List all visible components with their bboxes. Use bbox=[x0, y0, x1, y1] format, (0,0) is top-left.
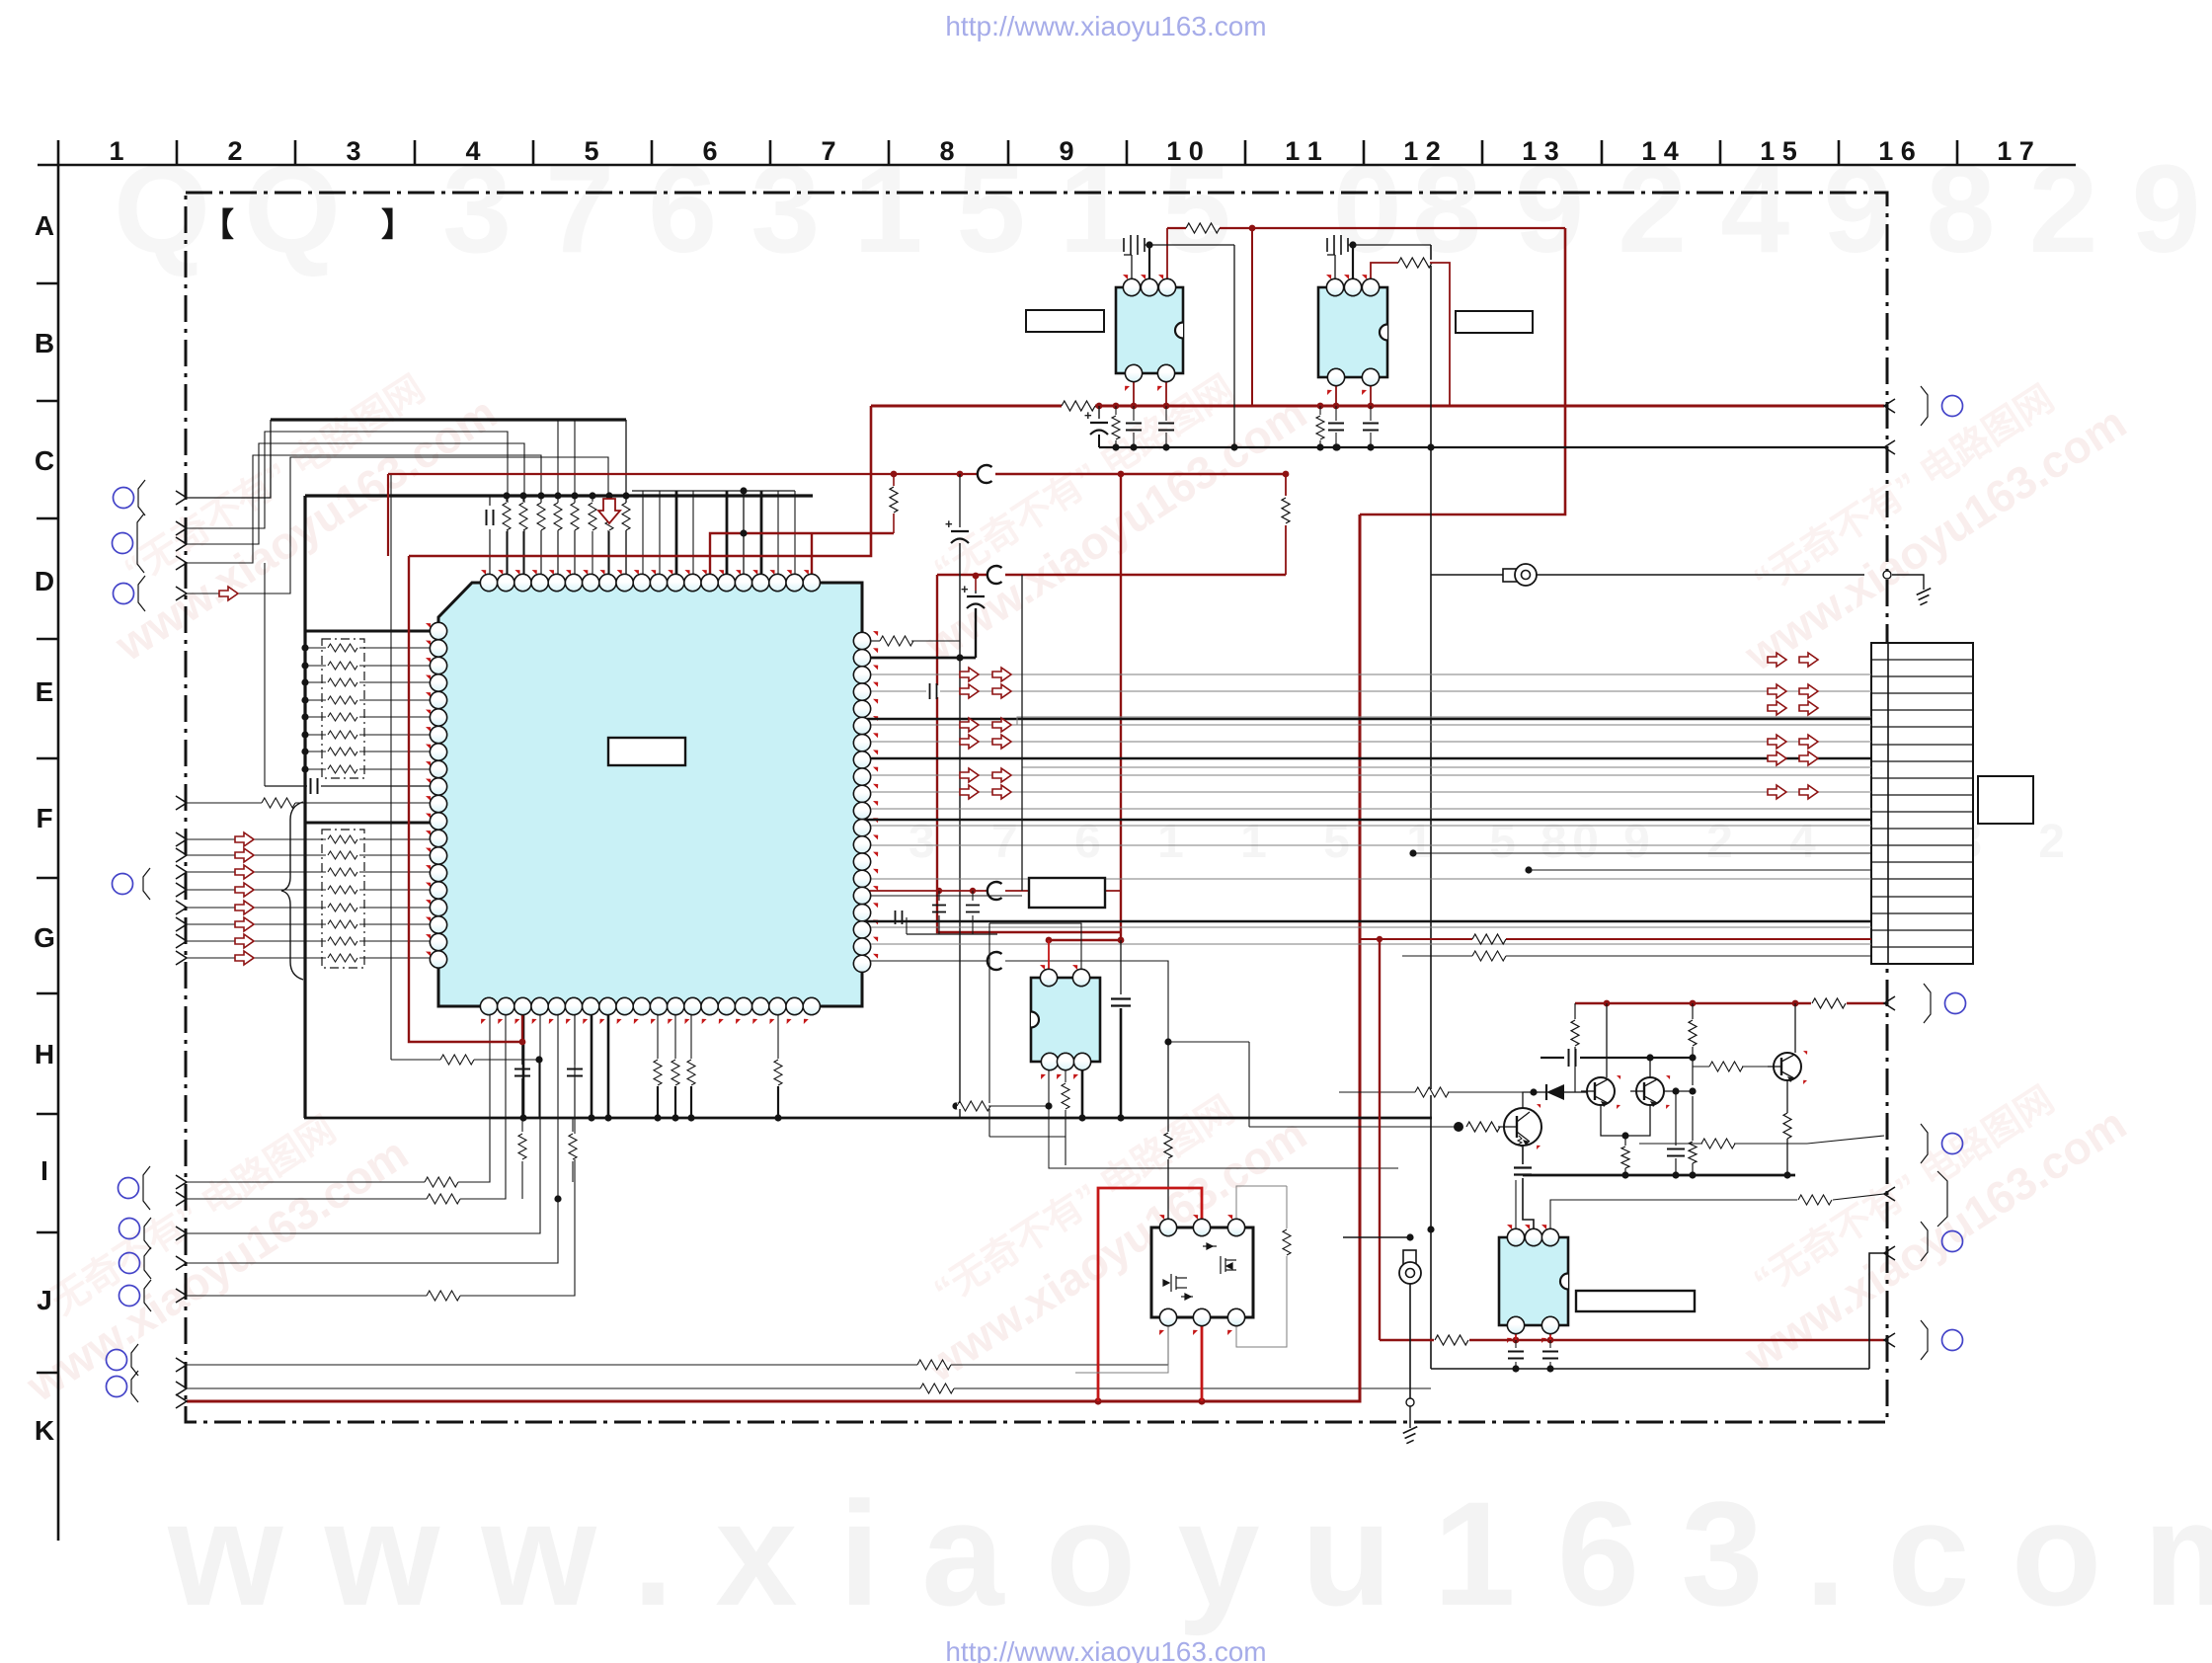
wire red xtal feed y231 bbox=[1167, 227, 1565, 229]
black row under red bbox=[1402, 955, 1871, 957]
wire Q4 base dot link bbox=[1339, 1091, 1416, 1093]
wire x1250 drop bbox=[1233, 245, 1235, 447]
resistor under U2 pin2 bbox=[1065, 1062, 1066, 1082]
svg-text:2: 2 bbox=[227, 136, 242, 166]
resistor R_i2 vertical bbox=[572, 1118, 574, 1132]
X1 crystal wiring bbox=[1131, 255, 1133, 287]
wire input J3 bbox=[187, 1007, 575, 1296]
wire input D3 to pin bbox=[187, 443, 524, 583]
signal arrows near IC bbox=[960, 668, 979, 681]
right terminal y1209 bbox=[1884, 1187, 1895, 1201]
wire red to bottom pins bbox=[409, 556, 522, 1042]
open junction at border bottom bbox=[1406, 1398, 1414, 1406]
wire RN1 row bbox=[305, 665, 326, 667]
label box for IC X1 bbox=[1026, 310, 1104, 332]
wire red bus y582 bbox=[937, 574, 987, 577]
label box for IC U3 bbox=[1576, 1291, 1695, 1311]
svg-text:4: 4 bbox=[465, 136, 480, 166]
svg-text:1 1: 1 1 bbox=[1285, 136, 1322, 166]
wire base feed into Q1 bbox=[1575, 1091, 1587, 1093]
left terminals group I/J bbox=[176, 1175, 187, 1189]
watermark pink diagonal lower-left bbox=[0, 1083, 417, 1412]
wire input I2 bbox=[187, 1007, 506, 1199]
wire row jog 2 bbox=[862, 767, 1871, 775]
wire input G row bbox=[187, 940, 326, 942]
crystal Y1 bbox=[1124, 235, 1145, 255]
ruler left ticks bbox=[37, 283, 58, 1373]
wire horizontal bus y502 bbox=[305, 494, 813, 497]
svg-text:1: 1 bbox=[109, 136, 123, 166]
wire vertical trunk x309 bbox=[303, 496, 306, 1118]
signal arrow G row bbox=[235, 934, 254, 948]
IC X2 oscillator chip right bbox=[1318, 275, 1387, 395]
left terminal F bbox=[176, 796, 187, 810]
FET array package Q5 bbox=[1151, 1215, 1253, 1335]
electrolytic cap C_e1 bbox=[1096, 403, 1103, 410]
wire x1397 red riser bbox=[1379, 939, 1381, 1340]
label box for IC X2 bbox=[1456, 311, 1533, 333]
wire red pin14-20 link bbox=[710, 533, 894, 583]
svg-text:K: K bbox=[35, 1415, 54, 1446]
connector CN1 right edge bbox=[1871, 643, 1973, 964]
brace for G group bbox=[281, 802, 303, 980]
svg-text:1 4: 1 4 bbox=[1641, 136, 1679, 166]
diode D1 bbox=[1545, 1084, 1547, 1100]
wire drop to cap bbox=[264, 563, 266, 786]
series capacitor C_b bbox=[265, 785, 307, 787]
svg-text:5: 5 bbox=[584, 136, 598, 166]
right terminal y453 bbox=[1884, 440, 1895, 454]
wire red x393 bbox=[387, 474, 389, 556]
wire ground bus y1132 bbox=[304, 1117, 1432, 1120]
wire red row17 bbox=[862, 890, 987, 892]
wire RN1 row bbox=[305, 681, 326, 683]
svg-text:www.xiaoyu163.com: www.xiaoyu163.com bbox=[167, 1470, 2212, 1636]
svg-text:E: E bbox=[36, 676, 54, 707]
left terminals group C/D bbox=[176, 491, 187, 505]
wire red riser x1585 bbox=[1360, 228, 1565, 515]
svg-text:http://www.xiaoyu163.com: http://www.xiaoyu163.com bbox=[945, 1636, 1266, 1663]
wire Q2 base link bbox=[1664, 1090, 1693, 1092]
X1/X2 decoupling to buses bbox=[1133, 373, 1135, 406]
wire red pin stub X1 bbox=[1166, 228, 1168, 287]
resistor R_e1 bbox=[1113, 403, 1120, 410]
wire Q1 collector bbox=[1606, 1003, 1608, 1077]
right terminal red y1357 bbox=[1884, 1333, 1895, 1347]
IC U1 top pins bbox=[480, 570, 820, 592]
wire Q1 Q2 emitters bbox=[1601, 1105, 1650, 1136]
wire input F1 bbox=[187, 802, 438, 804]
wire RN1 row bbox=[305, 716, 326, 718]
red drop w/ resistor to pin area bbox=[891, 471, 898, 478]
svg-text:I: I bbox=[40, 1155, 48, 1186]
wire input J1 bbox=[187, 1007, 540, 1233]
svg-text:1 5: 1 5 bbox=[1760, 136, 1797, 166]
series cap left of row17 bbox=[895, 911, 897, 924]
wire Q3 collector/emitter bbox=[1794, 1003, 1796, 1053]
right terminal red y1016 bbox=[1884, 996, 1895, 1010]
svg-text:D: D bbox=[35, 566, 54, 596]
ruler left vertical line bbox=[57, 140, 60, 1541]
wire riser to terminal bbox=[1869, 1253, 1884, 1369]
svg-text:【: 【 bbox=[201, 206, 234, 243]
resistor column under bus y502 bbox=[503, 492, 510, 499]
svg-text:B: B bbox=[35, 328, 54, 358]
wire input G row bbox=[187, 907, 326, 909]
row y881 bbox=[1525, 866, 1532, 873]
wire long vertical x1449 bbox=[1430, 245, 1432, 1369]
svg-text:】: 】 bbox=[381, 206, 414, 243]
svg-text:1 7: 1 7 bbox=[1997, 136, 2034, 166]
blue connector rings left bbox=[114, 488, 134, 509]
wire Q2 collector up bbox=[1649, 1058, 1651, 1077]
wire row jog 1 bbox=[862, 717, 1871, 725]
caps under U3 bbox=[1515, 1340, 1517, 1348]
wire input G row bbox=[187, 923, 326, 925]
resistor in red riser x1302 bbox=[1285, 474, 1287, 496]
wire T2 drop bbox=[1409, 1284, 1411, 1398]
wire diode anode bbox=[1534, 1091, 1546, 1093]
wire black bus y1190 bbox=[1523, 1174, 1795, 1177]
connector aux square bbox=[1978, 776, 2033, 824]
svg-text:7: 7 bbox=[821, 136, 835, 166]
gray line from FET left bbox=[1075, 1317, 1168, 1373]
svg-text:3: 3 bbox=[346, 136, 360, 166]
thick rows to connector bbox=[862, 718, 1871, 721]
wire RN1 row bbox=[305, 751, 326, 752]
svg-text:A: A bbox=[35, 210, 54, 241]
wire input G row bbox=[187, 957, 326, 959]
transistor Q2 bbox=[1636, 1077, 1664, 1105]
wire red bias bus y1016 bbox=[1575, 1002, 1811, 1004]
wire red y480 right part bbox=[995, 473, 1286, 476]
red row into connector bbox=[1360, 938, 1871, 940]
series cap on Q4 emitter bbox=[1522, 1146, 1524, 1164]
signal arrow on D5 line bbox=[219, 587, 238, 600]
wire input G row bbox=[187, 854, 326, 856]
wire input D2 to pin bbox=[187, 432, 508, 583]
wire Q3 base chain bbox=[1693, 1066, 1710, 1068]
signal arrow G row bbox=[235, 848, 254, 862]
wire vertical x972 upper bbox=[959, 474, 961, 527]
wire red riser x1268 bbox=[1251, 228, 1253, 406]
X2 crystal wiring bbox=[1334, 255, 1336, 287]
ground G1 bbox=[1892, 575, 1924, 590]
IC U2 regulator mid bbox=[1031, 965, 1100, 1079]
wire red FET source to bus bbox=[1201, 1317, 1204, 1401]
resistor network RN2 dashed box bbox=[322, 830, 364, 968]
wire black bus y453 bbox=[1099, 446, 1884, 448]
pin stubs top pins right part bbox=[642, 491, 644, 583]
resistor R_i1 vertical bbox=[521, 1118, 523, 1132]
svg-text:1 3: 1 3 bbox=[1522, 136, 1559, 166]
wire thick pin row F bbox=[305, 822, 438, 825]
wire K row 1 bbox=[187, 1364, 1168, 1366]
bracket marks left bbox=[138, 480, 145, 515]
wire U2 pin1 bottom stub bbox=[1048, 1062, 1050, 1106]
wire RN1 row bbox=[305, 768, 326, 770]
U3 pin stubs to red bbox=[1515, 1325, 1517, 1340]
ring terminal T2 bbox=[1403, 1250, 1416, 1264]
long gray rows to connector bbox=[862, 673, 1871, 675]
wire vertical x396 bbox=[390, 474, 392, 1060]
svg-text:QQ 37631515 0: QQ 37631515 0 bbox=[114, 139, 1436, 278]
signal arrow G row bbox=[235, 917, 254, 931]
resistor R_q3 bbox=[1692, 1096, 1694, 1141]
wire RN1 row bbox=[305, 734, 326, 736]
wire vertical x972 bbox=[959, 543, 961, 1118]
wire thick pin row bbox=[305, 630, 438, 633]
ruler top numbers bbox=[109, 136, 2033, 166]
watermark pink diagonal upper-left bbox=[77, 343, 506, 672]
svg-text:6: 6 bbox=[702, 136, 717, 166]
hollow red arrow down bbox=[598, 499, 620, 523]
svg-text:H: H bbox=[35, 1039, 54, 1069]
wire red bus y411 bbox=[871, 405, 1884, 408]
svg-text:9: 9 bbox=[1059, 136, 1073, 166]
wire red supply bus bottom bbox=[187, 515, 1360, 1401]
wire T2 link bbox=[1343, 1236, 1410, 1238]
svg-text:J: J bbox=[37, 1285, 52, 1315]
caps under red row17 bbox=[938, 891, 940, 901]
transistor Q1 bbox=[1587, 1077, 1615, 1105]
wire Q4 collector bbox=[1523, 1092, 1534, 1108]
watermark pink diagonal upper-center bbox=[887, 343, 1315, 672]
svg-text:C: C bbox=[35, 445, 54, 476]
signal arrow G row bbox=[235, 865, 254, 879]
wire red U2 pin1 bbox=[1048, 940, 1050, 978]
svg-text:http://www.xiaoyu163.com: http://www.xiaoyu163.com bbox=[945, 11, 1266, 41]
wire red riser x949 bbox=[937, 575, 1121, 932]
wire input G row bbox=[187, 871, 326, 873]
wire diode to node bbox=[1564, 1091, 1575, 1093]
wire input J2 bbox=[187, 1007, 558, 1263]
wire thin x1002 bbox=[988, 923, 990, 1137]
wire x1265 drop bbox=[1248, 1042, 1250, 1127]
capacitor C_d under pin bbox=[574, 1007, 576, 1065]
resistor network RN1 dashed box bbox=[322, 639, 364, 778]
bottom pin stubs to ground bus bbox=[522, 1007, 525, 1118]
capacitor C_c under pin bbox=[521, 1007, 523, 1065]
right terminal y1158 bbox=[1921, 1124, 1963, 1163]
svg-text:F: F bbox=[36, 803, 52, 833]
resistor R_e2 bbox=[1317, 403, 1324, 410]
transistor Q3 bbox=[1774, 1053, 1801, 1080]
wire y1055 to base chain bbox=[1168, 1041, 1249, 1043]
IC X1 oscillator chip left bbox=[1116, 275, 1183, 391]
pin circles overlay bbox=[430, 278, 1558, 1333]
ruler top ticks bbox=[177, 140, 1957, 165]
wire red drop from bus411 bbox=[409, 406, 871, 556]
row 20 with C bbox=[862, 960, 987, 962]
label box for IC U2 bbox=[1029, 878, 1105, 908]
border dash-dot frame bbox=[186, 193, 1887, 1422]
cap C_q bbox=[1672, 1087, 1679, 1094]
IC U1 bottom pins bbox=[480, 997, 820, 1024]
wire input D1 to top bus bbox=[187, 420, 271, 498]
watermark pink diagonal lower-right bbox=[1706, 1054, 2135, 1383]
left terminals group G bbox=[176, 832, 187, 846]
right terminal red y411 bbox=[1884, 399, 1895, 413]
right stub line y1158 bbox=[1807, 1136, 1884, 1144]
wire x1183 drop to FET bbox=[1167, 1042, 1169, 1121]
wire K row 2 bbox=[187, 1387, 1431, 1389]
wire stub y946 bbox=[907, 933, 997, 935]
svg-text:+: + bbox=[961, 582, 969, 596]
signal arrow G row bbox=[235, 901, 254, 914]
svg-text:+: + bbox=[1084, 408, 1092, 423]
svg-text:1 0: 1 0 bbox=[1166, 136, 1204, 166]
wire U3 top pin leads bbox=[1515, 1180, 1517, 1237]
wire RN1 row bbox=[305, 699, 326, 701]
watermark pink diagonal lower-center bbox=[887, 1064, 1315, 1392]
connector aux square overlay bbox=[1978, 776, 2033, 824]
wire short bus y497 bbox=[632, 490, 795, 492]
wire input G row bbox=[187, 838, 326, 840]
signal arrow G row bbox=[235, 832, 254, 846]
svg-text:G: G bbox=[34, 922, 55, 953]
transistor Q4 digital bbox=[1504, 1108, 1541, 1146]
open junction on border bbox=[1883, 571, 1891, 579]
ring terminal T1 bbox=[1503, 569, 1517, 582]
signal arrow G row bbox=[235, 951, 254, 965]
crystal Y2 bbox=[1327, 235, 1348, 255]
cap C_f right of U2 bbox=[1120, 940, 1122, 994]
vertical black x1035 bbox=[1021, 575, 1023, 891]
wire U2 pin2 feed bbox=[989, 923, 1081, 978]
wire input I1 bbox=[187, 1007, 490, 1182]
wire base feed y1141 bbox=[1249, 1126, 1459, 1128]
IC U1 main microcontroller body bbox=[438, 583, 862, 1006]
svg-text:1 2: 1 2 bbox=[1403, 136, 1441, 166]
ruler left letters bbox=[34, 210, 55, 1446]
left terminals group K bbox=[176, 1358, 187, 1372]
wire input G row bbox=[187, 889, 326, 891]
wire pin16 stub bbox=[743, 491, 745, 583]
rows G short bbox=[862, 878, 1871, 880]
wire input D5 to pin bbox=[187, 457, 608, 594]
wire red FET gate path bbox=[1098, 1188, 1202, 1401]
electrolytic cap C_e2 bbox=[975, 591, 977, 594]
right terminal y1269 bbox=[1884, 1246, 1895, 1260]
gray loop around FET bbox=[1236, 1186, 1287, 1227]
wire input D4 to pin bbox=[187, 455, 541, 583]
resistor R_q2 bbox=[1692, 1003, 1694, 1019]
wire red y480 bbox=[388, 473, 978, 475]
ruler top line bbox=[38, 164, 2076, 167]
wire red U2 supply bbox=[1049, 939, 1121, 941]
svg-text:1 6: 1 6 bbox=[1878, 136, 1916, 166]
resistor horizontal y1120 bbox=[952, 1102, 959, 1109]
wire U2 bottom pin3 thick bbox=[1081, 1062, 1084, 1118]
watermark pink diagonal upper-right bbox=[1706, 353, 2135, 681]
wire FET pin drop bbox=[1167, 1317, 1169, 1365]
IC U1 right pins bbox=[853, 631, 878, 972]
resistor R_h horizontal bbox=[391, 1059, 440, 1061]
svg-text:8: 8 bbox=[939, 136, 954, 166]
row 1 resistor bbox=[871, 640, 882, 642]
wire thick top bus bbox=[271, 418, 626, 421]
wire loop bottom bbox=[989, 1136, 1066, 1138]
series cap on row 700 bbox=[926, 685, 940, 697]
X2 red resistor link y266 bbox=[1371, 263, 1400, 287]
wire red long vertical x1135 bbox=[1120, 474, 1122, 940]
wire y1183 long thin bbox=[1049, 1106, 1398, 1168]
wire test line y582 bbox=[1431, 574, 1864, 576]
resistor R_q1 bbox=[1574, 1003, 1576, 1019]
row 2 thick w/ cap bbox=[871, 657, 976, 660]
IC U1 left pins bbox=[426, 622, 447, 968]
IC U3 driver bottom right bbox=[1499, 1225, 1568, 1343]
capacitor C_a bbox=[489, 496, 491, 506]
svg-text:3 7 6 1 1 5 1 5 0: 3 7 6 1 1 5 1 5 0 bbox=[908, 816, 1620, 868]
IC U1 internal label box bbox=[608, 738, 685, 765]
wire RN1 row bbox=[305, 647, 326, 649]
cap link y1071 bbox=[1568, 1049, 1570, 1067]
ground G2 bbox=[1403, 1427, 1418, 1444]
svg-text:+: + bbox=[945, 516, 953, 531]
row y864 bbox=[1409, 849, 1416, 856]
wire black return y1386 bbox=[1431, 1368, 1869, 1370]
wire pin stubs from top bus bbox=[557, 420, 559, 583]
signal arrows near connector bbox=[1768, 653, 1786, 667]
FET Q5 internals bbox=[1163, 1243, 1236, 1300]
wire red bottom out bbox=[1380, 1339, 1434, 1341]
signal arrow G row bbox=[235, 883, 254, 897]
resistors under bottom pins bbox=[657, 1007, 659, 1059]
